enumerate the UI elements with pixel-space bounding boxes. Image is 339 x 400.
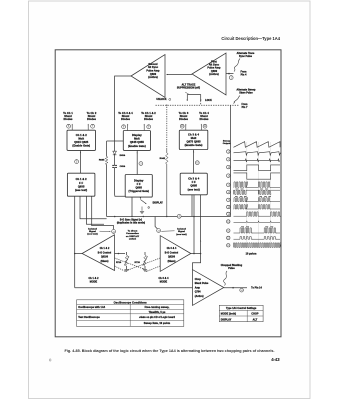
node circled w7 — [227, 198, 230, 201]
svg-text:Q675 Q685: Q675 Q685 — [186, 140, 201, 144]
block Ch 1 & 2 Mult Q615 Q625 — [67, 130, 96, 150]
waveform row 13 dense comb — [234, 243, 281, 248]
svg-text:Sweep: Sweep — [223, 140, 231, 142]
wire Ch 3 & 4 Mult to FF — [193, 150, 194, 174]
svg-text:Ch 1 & 2: Ch 1 & 2 — [76, 177, 87, 181]
svg-text:12: 12 — [227, 238, 229, 240]
node circled w2 — [227, 158, 230, 161]
svg-text:Chop: Chop — [195, 279, 202, 281]
label Chopped Blanking Pulse — [221, 265, 243, 285]
svg-text:Output: Output — [223, 142, 231, 145]
waveform row 6 chop bursts with steps — [234, 190, 281, 194]
svg-text:F F: F F — [137, 183, 141, 186]
node circled 13 — [157, 229, 161, 233]
svg-text:Pulse: Pulse — [228, 268, 235, 270]
svg-text:SUPPRESSION (off): SUPPRESSION (off) — [177, 87, 200, 89]
svg-text:11: 11 — [227, 230, 229, 232]
svg-text:Isolated: Isolated — [177, 228, 186, 231]
svg-text:Slave Pulse: Slave Pulse — [239, 93, 253, 95]
svg-text:(Enable Gate): (Enable Gate) — [72, 144, 90, 148]
waveform row 7 gate combs — [234, 198, 281, 202]
wire dashed switch linkage down — [166, 105, 168, 149]
label Isolated Signal right — [161, 228, 187, 236]
svg-text:From: From — [240, 71, 246, 73]
wire Ch 1 & 2 Mult to FF — [80, 150, 81, 173]
table Type 1A4 Control Settings — [219, 305, 263, 321]
svg-text:B-G Control: B-G Control — [98, 251, 112, 254]
svg-text:UNLOCK: UNLOCK — [156, 99, 167, 101]
label ALT TRACE SUPPRESSION — [177, 83, 200, 89]
label To direct Connection on DISPLAY switch — [126, 230, 140, 241]
node circled 9 shunt diode drive — [144, 124, 151, 131]
diode D634 — [113, 151, 126, 157]
node circled 11 shunt diode drive — [201, 124, 207, 130]
svg-text:B-G Sync Signal (+): B-G Sync Signal (+) — [120, 220, 142, 222]
svg-text:Oscilloscope with 1A4: Oscilloscope with 1A4 — [78, 306, 105, 309]
wire slave pulse vertical to B-G line — [230, 105, 232, 216]
node circled 8 shunt diode drive — [122, 124, 129, 131]
svg-text:Diodes: Diodes — [200, 117, 209, 121]
switch S2 DISPLAY — [132, 197, 163, 216]
svg-text:Alternate Sweep: Alternate Sweep — [237, 89, 256, 92]
svg-text:Sweep Rate, 10 μs/cm: Sweep Rate, 10 μs/cm — [144, 322, 170, 325]
svg-text:Ch 1 & 2: Ch 1 & 2 — [76, 133, 87, 137]
label To Ch 3 and 4 Shunt Diodes — [118, 111, 133, 121]
diagram border box — [55, 50, 281, 337]
svg-text:Q695: Q695 — [190, 184, 197, 188]
wire U4 output to junction — [191, 253, 202, 255]
node circled 5 — [75, 160, 79, 164]
svg-text:(Active): (Active) — [148, 76, 158, 79]
node circled w1 — [227, 150, 230, 153]
block Display Mult Q645 Q655 — [123, 131, 150, 151]
svg-text:10 μs/cm: 10 μs/cm — [246, 252, 257, 255]
svg-text:(see text): (see text) — [188, 187, 200, 191]
tick labels above row 6 — [236, 188, 269, 191]
svg-text:(Slave): (Slave) — [168, 261, 176, 263]
label Isolated Signal left — [87, 227, 110, 235]
svg-text:Mult: Mult — [134, 137, 140, 141]
wire bus to isolated node — [155, 217, 157, 229]
wire Ch 3 & 4 FF outputs down — [192, 195, 201, 270]
node circled w4 — [227, 174, 230, 177]
node circled 12 — [112, 230, 116, 234]
svg-text:Isolated: Isolated — [88, 227, 97, 230]
wire bottom rail into U5 — [75, 287, 193, 289]
waveform row 5 chop bursts — [234, 182, 281, 187]
node circled 4 on B-G bus — [177, 214, 181, 218]
waveform row 8 pulse bursts — [234, 205, 281, 209]
node circled w6 — [227, 190, 230, 193]
svg-text:on DISPLAY: on DISPLAY — [126, 235, 140, 238]
waveform row 3 square wave — [234, 165, 281, 171]
svg-text:Q665: Q665 — [136, 187, 143, 190]
svg-text:Blank Pulse: Blank Pulse — [195, 283, 209, 285]
svg-text:From: From — [241, 104, 247, 106]
svg-text:(Enable Gate): (Enable Gate) — [185, 143, 203, 147]
label To Ch 1 Shunt Diodes — [63, 111, 73, 121]
svg-text:Q6200: Q6200 — [168, 257, 176, 259]
waveform sweep sawtooth — [234, 142, 281, 148]
wire stub into junction with arrow — [140, 197, 141, 199]
waveform row 4 square wave — [234, 173, 281, 179]
svg-text:(Active): (Active) — [209, 73, 219, 76]
svg-text:13: 13 — [227, 245, 229, 247]
waveform row 10 tick line — [234, 221, 281, 223]
svg-text:Pin 7: Pin 7 — [242, 107, 248, 109]
wire U3 output to left rail — [74, 253, 82, 255]
svg-text:Signal: Signal — [89, 231, 96, 233]
ground under DISPLAY switch — [140, 211, 144, 213]
svg-text:R726: R726 — [135, 262, 141, 264]
potentiometer R726 — [135, 252, 148, 270]
table Oscilloscope Conditions — [77, 300, 184, 327]
label Ch 3 & 4 MODE — [158, 277, 169, 283]
svg-text:(Enable Gate): (Enable Gate) — [128, 144, 146, 148]
svg-text:DISPLAY: DISPLAY — [221, 318, 232, 321]
svg-text:Circuit Description—Type 1A4: Circuit Description—Type 1A4 — [221, 36, 280, 41]
svg-text:Amp: Amp — [195, 286, 201, 289]
svg-text:Ch 3 & 4: Ch 3 & 4 — [188, 132, 199, 136]
svg-text:R642: R642 — [160, 157, 166, 160]
svg-text:Sync Pulse: Sync Pulse — [239, 56, 253, 58]
waveform row 11 tall pulse groups — [234, 228, 281, 233]
svg-text:+Gate on pin CD of Logic board: +Gate on pin CD of Logic board — [139, 316, 175, 319]
op-amp U3 Ch 1 & 2 B-G Control — [82, 235, 114, 271]
node circled w8 — [227, 205, 230, 208]
svg-text:Ch 3 & 4: Ch 3 & 4 — [188, 177, 199, 181]
svg-text:DISPLAY: DISPLAY — [153, 202, 164, 205]
wire Ch 1 & 2 FF outputs down — [75, 196, 114, 288]
svg-text:F F: F F — [79, 181, 83, 185]
wire MODE input into U3 — [115, 253, 126, 255]
svg-text:ALT: ALT — [253, 318, 258, 321]
waveform row 1 spikes — [234, 152, 281, 156]
op-amp U2 First Alt Sync Pulse Amp Q680 — [192, 53, 226, 95]
potentiometer R716 — [116, 252, 129, 270]
capacitor C634 — [112, 165, 126, 168]
svg-text:C634: C634 — [120, 165, 126, 168]
svg-text:4-43: 4-43 — [271, 357, 280, 362]
label Ch 1 & 2 MODE — [88, 277, 99, 283]
svg-text:R635: R635 — [99, 159, 105, 161]
node circled w11 — [227, 229, 230, 232]
svg-text:Chopped Blanking: Chopped Blanking — [221, 265, 243, 267]
svg-text:Free-running sweep,: Free-running sweep, — [145, 306, 170, 309]
block Ch 1 & 2 FF Q635 — [67, 173, 95, 196]
node circled w12 — [227, 236, 230, 239]
wire Display Mult to FF — [137, 150, 138, 174]
label Alternate Sweep Slave Pulse — [234, 89, 256, 110]
svg-text:R716: R716 — [116, 262, 122, 264]
resistor R642 — [160, 148, 168, 217]
node circled w10 — [227, 220, 230, 223]
svg-text:Test Oscilloscope: Test Oscilloscope — [78, 316, 100, 319]
wire branch bar — [107, 140, 124, 142]
label Alternate Trace Sync Pulse — [234, 52, 255, 77]
label To Ch 2 Shunt Diodes — [87, 111, 97, 121]
svg-text:Signal: Signal — [178, 231, 185, 233]
svg-text:D634: D634 — [120, 154, 126, 157]
label To Ch 3 Shunt Diodes — [179, 111, 189, 121]
svg-text:LOCK: LOCK — [205, 100, 212, 102]
svg-text:To direct: To direct — [128, 230, 138, 233]
waveform row 12 short pulses — [234, 237, 281, 240]
node circled w9 — [227, 212, 230, 215]
svg-text:Alternate Trace: Alternate Trace — [237, 52, 255, 55]
resistor R635 — [99, 141, 108, 217]
svg-text:Q645 Q655: Q645 Q655 — [130, 140, 145, 144]
node circled 1 — [229, 76, 233, 80]
svg-text:Q6100: Q6100 — [101, 257, 109, 259]
tick labels above row 11 — [241, 225, 273, 228]
node 1 input Alternate Trace Sync Pulse from Pin 4 — [226, 73, 234, 75]
waveform row 9 alternate combs — [234, 212, 281, 216]
svg-text:(Slave): (Slave) — [101, 261, 109, 263]
ground under R716 — [124, 269, 128, 271]
ground under R726 — [143, 269, 147, 271]
svg-text:Fig. 4-85. Block diagram of th: Fig. 4-85. Block diagram of the logic ci… — [65, 349, 275, 353]
node circled 10 — [195, 161, 199, 165]
label Sweep Output — [223, 140, 231, 145]
node circled 3 — [139, 162, 143, 166]
op-amp U5 Chop Blank Pulse Amp Q784 — [193, 270, 224, 306]
svg-text:(see text): (see text) — [176, 233, 187, 236]
node circled 14 — [240, 288, 244, 292]
svg-text:Diodes: Diodes — [121, 117, 130, 121]
node circled w13 — [227, 244, 230, 247]
block Ch 3 & 4 FF Q695 — [180, 173, 207, 195]
wire B-G sync signal bus — [107, 216, 231, 218]
label B-G Sync Signal — [117, 220, 145, 225]
svg-text:Q635: Q635 — [78, 184, 85, 188]
svg-text:Mult: Mult — [191, 136, 197, 140]
svg-text:Diodes: Diodes — [144, 117, 153, 121]
switch S1 UNLOCK / LOCK slider — [156, 92, 212, 102]
svg-text:Mult: Mult — [78, 136, 84, 140]
op-amp U1 Second Alt Sync Pulse Amp Q690 — [131, 55, 165, 98]
svg-text:Ch 1 & 2: Ch 1 & 2 — [100, 248, 110, 250]
wire dashed MODE linkage — [115, 258, 161, 272]
svg-text:Diodes: Diodes — [64, 117, 73, 121]
svg-text:Type 1A4 Control Settings: Type 1A4 Control Settings — [226, 307, 257, 310]
svg-text:ALT TRACE: ALT TRACE — [182, 83, 196, 86]
svg-text:Ch 3 & 4: Ch 3 & 4 — [167, 247, 177, 250]
node circled 7 shunt diode drive — [88, 124, 95, 130]
svg-text:Connection: Connection — [126, 232, 139, 235]
svg-text:Display: Display — [132, 133, 142, 137]
svg-text:Time/Div, 5 μs: Time/Div, 5 μs — [149, 311, 166, 314]
node circled 10 shunt diode drive — [180, 124, 186, 130]
svg-text:To Pin 14: To Pin 14 — [251, 287, 262, 290]
tick labels above row 7 — [235, 195, 271, 198]
svg-text:B-G Control: B-G Control — [165, 251, 179, 254]
svg-text:Diodes: Diodes — [87, 117, 96, 121]
node circled w3 — [227, 165, 230, 168]
svg-text:MODE: MODE — [160, 280, 168, 283]
svg-text:(see text): (see text) — [75, 188, 87, 192]
svg-text:switch: switch — [129, 238, 137, 241]
wire U5 output to Pin 14 — [224, 287, 247, 289]
svg-text:(Triggered Gate): (Triggered Gate) — [129, 190, 150, 193]
node circled 6 shunt diode drive — [67, 124, 73, 130]
svg-text:CHOP: CHOP — [251, 313, 259, 316]
block Ch 3 & 4 Mult Q675 Q685 — [179, 130, 208, 149]
label To Ch 4 Shunt Diodes — [199, 111, 209, 121]
svg-text:10: 10 — [227, 221, 229, 223]
svg-text:MODE: MODE — [90, 280, 98, 283]
svg-text:(see text): (see text) — [87, 233, 98, 236]
svg-text:Q615 Q625: Q615 Q625 — [74, 140, 89, 144]
svg-text:MODE (both): MODE (both) — [221, 313, 237, 316]
svg-text:(duplicates in this mode): (duplicates in this mode) — [117, 222, 145, 225]
svg-text:F F: F F — [192, 180, 196, 184]
op-amp U4 Ch 3 & 4 B-G Control — [160, 236, 191, 272]
wire dashed from switch to From Pin 7 — [156, 104, 240, 106]
waveform row 2 small spikes — [234, 159, 280, 162]
block Display FF Q665 — [125, 175, 152, 198]
label To Ch 1 and 2 Shunt Diodes — [141, 111, 156, 121]
svg-text:(Active): (Active) — [195, 295, 204, 298]
wire U2 output to U1 input — [167, 74, 193, 75]
node circled w5 — [227, 183, 230, 186]
svg-text:Pin 4: Pin 4 — [241, 73, 247, 76]
waveform timing gridlines — [247, 142, 271, 248]
svg-text:Q784: Q784 — [195, 291, 201, 294]
svg-text:Display: Display — [134, 179, 144, 182]
wire U1 output down left feedback line — [115, 76, 141, 196]
svg-text:Diodes: Diodes — [179, 117, 188, 121]
svg-text:Oscilloscope Conditions: Oscilloscope Conditions — [114, 300, 148, 304]
